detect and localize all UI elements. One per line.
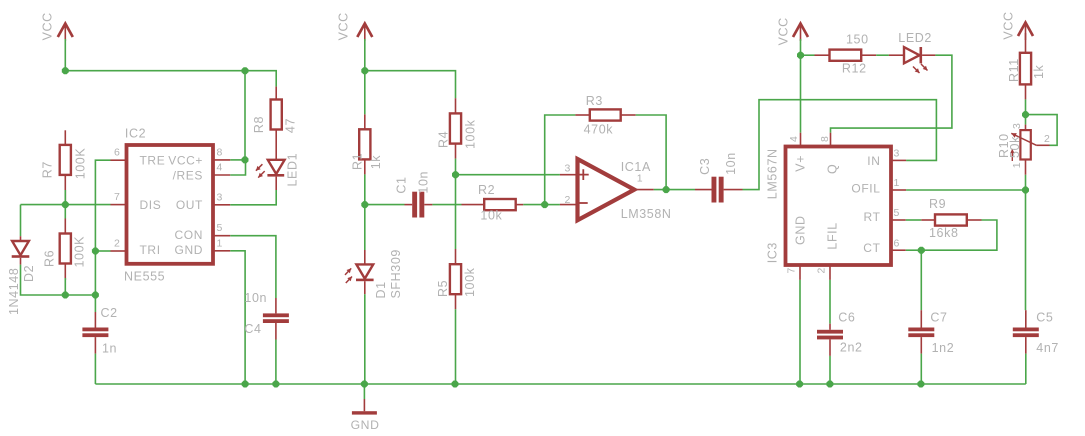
- pin stub IN pin 3: [891, 159, 906, 161]
- wire divider down to R5 (crosses C1 line): [455, 175, 457, 249]
- wire R12 to LED2: [876, 54, 889, 56]
- svg-text:4n7: 4n7: [1036, 341, 1059, 355]
- svg-text:SFH309: SFH309: [389, 249, 403, 298]
- wire pin 4 elbow up to junction: [230, 160, 245, 175]
- pin stub RT pin 5: [891, 219, 906, 221]
- svg-text:3: 3: [894, 148, 900, 160]
- pin stub LFIL pin 2: [829, 265, 831, 280]
- wire OFIL junction down to C5: [1025, 190, 1027, 310]
- wire TRE column (pin6 elbow down to C2): [95, 160, 110, 312]
- svg-text:4: 4: [217, 162, 223, 174]
- wire output to C3: [654, 189, 695, 191]
- svg-text:100K: 100K: [74, 148, 88, 180]
- svg-text:R7: R7: [41, 161, 55, 178]
- svg-text:1: 1: [637, 173, 643, 185]
- node junction C4 column / rail: [272, 381, 279, 388]
- svg-text:VCC: VCC: [777, 17, 791, 45]
- node junction pin8/pin4/VCC drop: [242, 156, 249, 163]
- svg-text:TRI: TRI: [140, 243, 161, 257]
- wire R9 loop to CT line: [921, 220, 997, 250]
- svg-text:OFIL: OFIL: [851, 181, 880, 195]
- node junction CT / R9 loop / C7: [918, 247, 925, 254]
- pin stub V+ pin 4: [800, 133, 802, 147]
- node junction TRE column / D2 line: [92, 292, 99, 299]
- svg-text:D1: D1: [374, 281, 388, 298]
- pin stub DIS pin 7: [111, 204, 127, 206]
- svg-text:R8: R8: [252, 116, 266, 133]
- svg-text:C1: C1: [395, 176, 409, 193]
- wire V+ pin 4 up to VCC: [800, 55, 802, 133]
- svg-text:R9: R9: [929, 197, 946, 211]
- svg-text:R5: R5: [436, 280, 450, 297]
- svg-text:4: 4: [788, 136, 800, 142]
- svg-text:/RES: /RES: [173, 169, 203, 183]
- pin stub OUT pin 3: [213, 204, 230, 206]
- node junction OFIL / R10 / C5: [1022, 187, 1029, 194]
- resistor R5 100k: [436, 249, 477, 309]
- svg-text:1k: 1k: [369, 155, 383, 170]
- pin stub VCC+ pin 8: [213, 159, 230, 161]
- node junction R2 / R3 / -in: [541, 201, 548, 208]
- wire R2 to -in junction: [523, 204, 544, 206]
- wire +in line: [456, 174, 560, 176]
- svg-text:470k: 470k: [584, 123, 614, 137]
- svg-text:Q: Q: [826, 164, 840, 174]
- wire D2 anode drop: [20, 205, 22, 237]
- svg-text:10n: 10n: [244, 291, 267, 305]
- pin stub TRE pin 6: [111, 159, 127, 161]
- svg-text:VCC: VCC: [41, 12, 55, 40]
- svg-text:2: 2: [1044, 133, 1050, 145]
- pin stub TRI pin 2: [111, 250, 127, 252]
- wire VCC2 stem: [364, 39, 366, 71]
- capacitor C7 1n2: [908, 310, 954, 384]
- svg-text:R6: R6: [43, 250, 57, 267]
- svg-text:LED2: LED2: [898, 31, 932, 45]
- svg-text:100k: 100k: [464, 119, 478, 149]
- svg-text:1k: 1k: [1032, 64, 1046, 79]
- node junction pin7 / rail: [796, 381, 803, 388]
- wire D2 cathode to bottom line: [21, 265, 96, 295]
- tone decoder IC3 LM567N body and pin labels: [766, 136, 900, 274]
- svg-text:C7: C7: [930, 311, 947, 325]
- svg-text:1: 1: [217, 237, 223, 249]
- node junction VCC / top rail: [62, 67, 69, 74]
- wire pin 2 to C6: [829, 280, 831, 324]
- power VCC symbol (left, NE555 section): [41, 12, 73, 41]
- resistor R3 470k: [575, 94, 635, 137]
- ground GND symbol: [351, 384, 380, 432]
- wire VCC3 to R12: [801, 54, 815, 56]
- svg-text:R11: R11: [1007, 58, 1021, 82]
- node junction DIS / R7 / D2 line: [62, 201, 69, 208]
- wire pin 1 down to rail: [230, 251, 245, 384]
- pin stub op-amp output pin 1: [634, 189, 654, 191]
- power VCC symbol (middle): [337, 12, 373, 41]
- wire C1 line left: [365, 204, 405, 206]
- svg-text:8: 8: [819, 136, 831, 142]
- svg-text:VCC: VCC: [337, 12, 351, 40]
- svg-text:LM358N: LM358N: [621, 207, 672, 221]
- svg-text:50k: 50k: [1008, 136, 1022, 158]
- svg-text:2: 2: [816, 267, 828, 273]
- capacitor C3 10n: [695, 152, 743, 202]
- svg-text:C6: C6: [838, 311, 855, 325]
- node junction R4 / R5 / +in: [452, 171, 459, 178]
- power VCC symbol (right, LM567 section): [777, 17, 808, 45]
- wire R1 top: [364, 71, 366, 115]
- svg-text:CON: CON: [175, 228, 203, 242]
- svg-text:100K: 100K: [73, 236, 87, 268]
- svg-text:1n: 1n: [102, 342, 117, 356]
- wire C3 to LM567 IN: [743, 100, 937, 190]
- svg-text:LED1: LED1: [286, 153, 300, 187]
- node junction R1 / C1 / D1: [361, 201, 368, 208]
- LED LED1 with arrows: [256, 153, 300, 190]
- wire R7 bottom to DIS line: [64, 190, 66, 205]
- photodiode D1 SFH309: [345, 249, 403, 298]
- capacitor C4 10n: [244, 291, 289, 384]
- op-amp timer IC2 NE555 body and pin labels: [114, 127, 223, 284]
- wire VCC drop to pin8 junction: [244, 71, 246, 160]
- wire CT stub to junction: [906, 249, 922, 251]
- pin stub /RES pin 4: [213, 174, 230, 176]
- pin stub CT pin 6: [891, 249, 906, 251]
- wire C1 to R2: [432, 204, 461, 206]
- wire mid top rail to R4: [365, 71, 456, 99]
- svg-text:2: 2: [114, 237, 120, 249]
- svg-text:VCC: VCC: [1002, 11, 1016, 39]
- svg-text:CT: CT: [863, 241, 880, 255]
- svg-text:3: 3: [1011, 123, 1023, 129]
- wire VCC stem to top rail: [64, 39, 66, 71]
- capacitor C1 10n: [395, 171, 433, 218]
- node junction VCC2 / mid rail: [361, 67, 368, 74]
- svg-text:2n2: 2n2: [840, 341, 863, 355]
- svg-text:R4: R4: [437, 131, 451, 148]
- wire D1 top: [364, 205, 366, 250]
- LED LED2 with arrows: [889, 31, 936, 73]
- svg-text:VCC+: VCC+: [168, 153, 203, 167]
- svg-text:RT: RT: [864, 210, 881, 224]
- svg-text:1N4148: 1N4148: [7, 268, 21, 315]
- wire CT junction down to C7: [920, 250, 922, 310]
- svg-text:10n: 10n: [724, 152, 738, 175]
- capacitor C6 2n2: [817, 311, 863, 385]
- node junction D1 / GND / rail: [361, 381, 368, 388]
- node junction VCC3 / R12 / V+: [797, 52, 804, 59]
- svg-text:TRE: TRE: [140, 153, 166, 167]
- wire OFIL to R10/C5 column: [906, 189, 1025, 191]
- pin stub OFIL pin 1: [891, 189, 906, 191]
- svg-text:NE555: NE555: [124, 269, 165, 283]
- potentiometer R10 50k: [997, 115, 1057, 190]
- wire R3 feedback left leg: [545, 115, 576, 205]
- node junction R6 bottom / D2 line: [62, 292, 69, 299]
- node junction top rail / pin8 drop: [242, 67, 249, 74]
- pin stub Q pin 8: [830, 133, 832, 147]
- wire R5 bottom to rail: [455, 309, 457, 384]
- svg-text:6: 6: [114, 147, 120, 159]
- wire R1 bottom to C1 line: [364, 174, 366, 204]
- svg-text:OUT: OUT: [176, 198, 203, 212]
- capacitor C5 4n7: [1013, 310, 1059, 384]
- pin stub op-amp -in pin 2: [560, 204, 578, 206]
- wire LED2 to Q pin 8: [831, 55, 952, 133]
- svg-text:IC3: IC3: [766, 242, 780, 263]
- wire pin 7 to rail: [799, 280, 801, 384]
- svg-text:1: 1: [1011, 162, 1023, 168]
- op-amp IC1A LM358N: [565, 159, 672, 221]
- pin stub GND pin 1: [213, 250, 230, 252]
- svg-text:IC2: IC2: [125, 127, 146, 141]
- svg-text:47: 47: [284, 118, 298, 133]
- node junction C6 / rail: [826, 381, 833, 388]
- diode D2 1N4148: [7, 236, 36, 315]
- svg-text:3: 3: [217, 191, 223, 203]
- wire R3 feedback right leg: [636, 115, 666, 190]
- resistor R6 100k: [43, 219, 87, 281]
- svg-text:GND: GND: [794, 215, 808, 245]
- node junction R11 / R10: [1022, 111, 1029, 118]
- wire R4 bottom to +in junction: [455, 159, 457, 175]
- svg-text:3: 3: [565, 163, 571, 175]
- pin stub GND pin 7: [799, 265, 801, 280]
- svg-text:R1: R1: [351, 153, 365, 170]
- resistor R8 47: [252, 87, 298, 160]
- svg-text:R2: R2: [478, 183, 495, 197]
- node junction output / R3: [663, 186, 670, 193]
- resistor R1 1k: [351, 114, 384, 174]
- pin stub op-amp +in pin 3: [560, 174, 578, 176]
- wire R11 bottom to junction: [1025, 99, 1027, 114]
- node junction C7 / rail: [917, 381, 924, 388]
- svg-text:1n2: 1n2: [932, 341, 955, 355]
- svg-text:10k: 10k: [480, 208, 502, 222]
- svg-text:16k8: 16k8: [929, 226, 959, 240]
- wire pin 8 to junction: [230, 159, 245, 161]
- svg-text:5: 5: [894, 207, 900, 219]
- node junction TRE column / TRI line: [92, 248, 99, 255]
- svg-text:8: 8: [217, 146, 223, 158]
- svg-text:1: 1: [894, 177, 900, 189]
- svg-text:DIS: DIS: [140, 198, 162, 212]
- wire bottom rail (full width): [95, 383, 1025, 385]
- power VCC symbol (far right): [1002, 11, 1034, 40]
- svg-text:C5: C5: [1036, 311, 1053, 325]
- resistor R2 10k: [462, 183, 524, 222]
- svg-text:V+: V+: [794, 155, 808, 172]
- svg-text:LFIL: LFIL: [826, 222, 840, 249]
- node junction R5 / rail: [452, 381, 459, 388]
- pin stub CON pin 5: [213, 235, 230, 237]
- wire VCC4 stem red: [1025, 33, 1027, 53]
- svg-text:10n: 10n: [417, 171, 431, 194]
- wire -in line: [545, 204, 560, 206]
- wire RT to R9: [906, 219, 922, 221]
- svg-text:C3: C3: [698, 158, 712, 175]
- svg-text:D2: D2: [22, 265, 36, 282]
- svg-text:C2: C2: [101, 306, 118, 320]
- wire DIS horizontal (D2 top to pin 7): [21, 204, 111, 206]
- svg-text:6: 6: [894, 237, 900, 249]
- svg-text:R12: R12: [842, 61, 867, 75]
- wire top rail left section: [65, 71, 276, 87]
- wire VCC3 stem: [800, 39, 802, 55]
- svg-text:IN: IN: [867, 154, 880, 168]
- svg-text:7: 7: [114, 191, 120, 203]
- svg-text:150: 150: [846, 32, 869, 46]
- svg-text:2: 2: [565, 194, 571, 206]
- svg-text:5: 5: [217, 222, 223, 234]
- wire TRI line to pin 2: [95, 250, 110, 252]
- wire CON to C4 column: [230, 236, 276, 298]
- svg-text:R3: R3: [586, 94, 603, 108]
- svg-text:C4: C4: [244, 322, 261, 336]
- wire OUT to LED1 bottom: [230, 190, 276, 205]
- capacitor C2 1n: [82, 306, 117, 384]
- svg-text:GND: GND: [175, 243, 203, 257]
- resistor R7 100k: [41, 130, 88, 204]
- svg-text:GND: GND: [351, 418, 380, 432]
- svg-text:7: 7: [786, 267, 798, 273]
- resistor R11 1k: [1007, 53, 1046, 100]
- wire R6 top lead join: [64, 205, 66, 219]
- resistor R9 16k8: [921, 197, 981, 240]
- resistor R4 100k: [437, 98, 478, 158]
- resistor R12 150: [815, 32, 877, 75]
- svg-text:LM567N: LM567N: [766, 148, 780, 199]
- wire D1 to rail: [364, 294, 366, 384]
- wire R6 bottom join: [64, 278, 66, 295]
- svg-text:100k: 100k: [463, 267, 477, 297]
- node junction pin1 column / rail: [242, 381, 249, 388]
